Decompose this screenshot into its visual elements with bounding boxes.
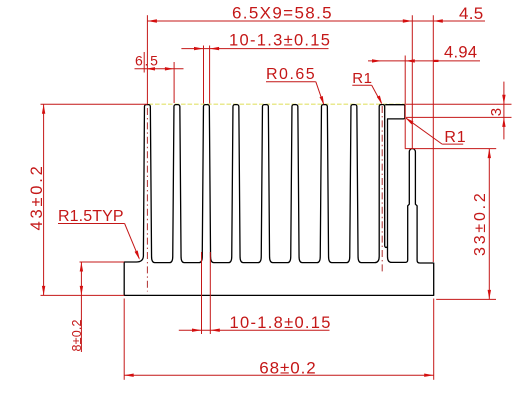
heatsink profile outline <box>124 105 434 296</box>
arrow 6.5 right <box>165 67 174 70</box>
leader R1 second <box>442 143 463 145</box>
arrow 68 left <box>124 374 134 377</box>
arrow 4.94 right (outside) <box>405 59 415 62</box>
dim 10-1.8±0.15 line <box>179 329 330 331</box>
dim 43±0.2 ext bottom / base bottom ext <box>41 294 125 296</box>
centerline fin 1 <box>146 108 148 292</box>
arrow 58.5 left <box>147 19 157 22</box>
svg-text:R0.65: R0.65 <box>266 66 316 83</box>
svg-text:10-1.3±0.15: 10-1.3±0.15 <box>229 32 331 50</box>
arrow 10-1.8 left (outside) <box>192 329 202 332</box>
ext fin1 left edge <box>143 52 145 73</box>
arrow 43 bottom <box>42 286 45 296</box>
arrow 3 bottom (outside) <box>502 117 505 127</box>
small tick right of 433 <box>433 60 438 62</box>
leader R0.65 <box>266 81 316 83</box>
centerline slot fin <box>381 106 383 272</box>
svg-text:4.94: 4.94 <box>444 44 477 62</box>
svg-text:R1: R1 <box>444 129 466 146</box>
arrow 4.5 right (outside) <box>433 19 443 22</box>
arrow 4.94 left (outside) <box>372 59 382 62</box>
arrow 68 right <box>424 374 434 377</box>
leader R1.5TYP <box>58 223 125 225</box>
svg-text:6.5: 6.5 <box>135 52 160 68</box>
dim 8±0.2 line <box>80 262 82 352</box>
dim 43±0.2 ext top <box>41 103 148 105</box>
ext line fin3 tip left <box>203 46 205 104</box>
arrow 10-1.3 right (outside) <box>210 47 220 50</box>
dim 6.5 pitch line <box>135 68 184 70</box>
svg-text:4.5: 4.5 <box>459 4 484 23</box>
dim 6.5X9=58.5 and 4.5 top dimension line <box>147 20 485 22</box>
svg-text:R1.5TYP: R1.5TYP <box>58 208 124 225</box>
arrow 58.5 right / 4.5 left <box>403 19 413 22</box>
arrow 33 bottom <box>488 290 491 300</box>
clip-slot T plate top right <box>385 105 405 246</box>
svg-text:8±0.2: 8±0.2 <box>70 319 84 351</box>
dim 33±0.2 ext bottom <box>436 298 496 300</box>
dim 68±0.2 ext right <box>433 299 435 380</box>
fin tip datum line (yellow dashed) <box>149 103 406 105</box>
dim 33±0.2 ext top (short fin tip level) <box>405 148 496 150</box>
arrow 43 top <box>42 104 45 114</box>
dim 10-1.8±0.15 ext left <box>201 252 203 334</box>
ext line base right edge top <box>432 15 434 262</box>
svg-text:6.5X9=58.5: 6.5X9=58.5 <box>232 3 333 22</box>
dim 3 ext bottom <box>406 116 512 118</box>
svg-text:33±0.2: 33±0.2 <box>472 190 489 256</box>
dim 68±0.2 ext left <box>123 299 125 380</box>
dim 8±0.2 ext top (shoulder) <box>80 261 125 263</box>
arrow 6.5 left <box>146 67 155 70</box>
svg-text:R1: R1 <box>352 70 372 87</box>
ext line fin3 tip right <box>209 46 211 104</box>
arrow 8 bottom <box>80 286 83 296</box>
dim 3 line <box>503 82 505 140</box>
leader R1 first <box>352 84 371 86</box>
svg-text:3: 3 <box>488 107 505 117</box>
dim 10-1.8±0.15 ext right <box>209 252 211 334</box>
ext fin2 left edge <box>173 62 175 103</box>
svg-text:43±0.2: 43±0.2 <box>28 163 46 230</box>
arrow 8 top <box>80 262 83 272</box>
ext line fin1 center <box>146 15 148 104</box>
ext line at corner x405 <box>404 56 406 149</box>
dim 43±0.2 line <box>43 104 45 295</box>
ext line short fin center <box>411 15 413 148</box>
arrow 10-1.3 left (outside) <box>194 47 204 50</box>
dim 68±0.2 line <box>124 374 434 376</box>
arrow 3 top (outside) <box>502 95 505 105</box>
arrow 10-1.8 right (outside) <box>210 329 220 332</box>
svg-text:68±0.2: 68±0.2 <box>259 358 316 377</box>
arrow 33 top <box>488 149 491 159</box>
dim 4.94 line <box>368 60 480 62</box>
svg-text:10-1.8±0.15: 10-1.8±0.15 <box>230 314 332 332</box>
dim 3 ext top <box>406 103 512 105</box>
dim 33±0.2 line <box>488 149 490 300</box>
dim 10-1.3±0.15 line <box>181 48 328 50</box>
